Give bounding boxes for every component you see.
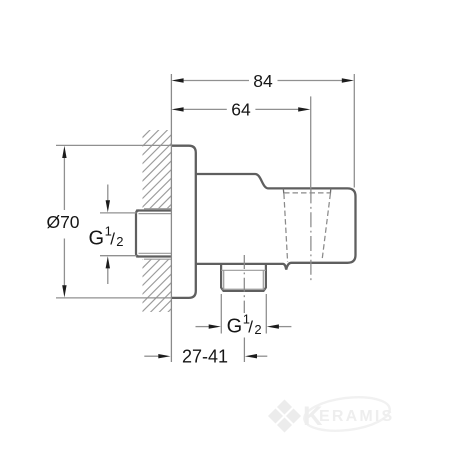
holder cone hidden right edge (322, 194, 330, 261)
dim 84 line (182, 80, 249, 82)
svg-text:Ø70: Ø70 (46, 212, 79, 232)
flange (escutcheon side view) (171, 146, 196, 298)
holder cone centerline (dash-dot) (310, 188, 312, 281)
dim G1/2 bottom extension lines (220, 294, 222, 334)
dim D70 extension top (56, 144, 171, 146)
outlet thread G1/2 (bottom) (221, 264, 266, 291)
dim D70 extension bottom (56, 297, 171, 299)
inlet thread G1/2 (through wall) (136, 211, 171, 257)
svg-text:/: / (110, 230, 115, 249)
svg-text:ERAMIS: ERAMIS (319, 408, 394, 425)
holder cone hidden top edge (284, 192, 330, 194)
outlet centerline lower segment (243, 338, 245, 363)
wall line (170, 74, 172, 362)
dim D70 arrowheads (62, 146, 66, 158)
dim G1/2 bottom arrows (196, 326, 210, 328)
holder cone visible tick right (329, 188, 331, 193)
watermark logo diamonds (268, 400, 301, 433)
dim G1/2 left arrows (107, 185, 109, 202)
svg-text:G: G (227, 316, 243, 338)
svg-text:27-41: 27-41 (182, 347, 228, 367)
holder cone hidden left edge (284, 194, 288, 262)
dim 84 extension line (right) (353, 74, 355, 188)
svg-text:/: / (248, 318, 253, 337)
svg-text:2: 2 (254, 322, 261, 337)
svg-text:84: 84 (253, 71, 273, 91)
dim D70 line (63, 157, 65, 210)
dim 64 line (182, 108, 227, 110)
dim G1/2 left extension lines (100, 212, 137, 214)
dim 64 extension line (310, 96, 312, 188)
svg-text:G: G (89, 228, 105, 250)
dim 27-41 arrows (144, 355, 158, 357)
svg-text:64: 64 (231, 100, 251, 120)
holder cone visible tick left (282, 188, 285, 193)
dim 84 arrowheads (171, 78, 183, 82)
dim 64 arrowheads (171, 107, 183, 111)
wall hatch (125, 95, 185, 373)
svg-text:2: 2 (116, 234, 123, 249)
wall hole edge bottom (144, 258, 171, 260)
elbow body outline (196, 174, 356, 270)
wall hole edge top (144, 208, 171, 210)
outlet centerline (dash-dot) (243, 255, 245, 313)
watermark ellipse swoosh (302, 393, 391, 435)
